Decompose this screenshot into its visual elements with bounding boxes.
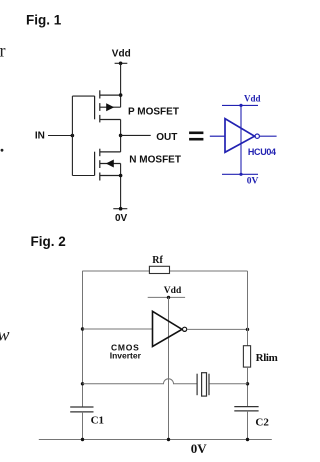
wire right vertical top (feedback to output) [247, 271, 249, 346]
svg-text:Fig. 1: Fig. 1 [26, 13, 62, 28]
junction dot input net / crystal branch [81, 382, 84, 385]
wire Rlim to crystal/C2 node [247, 367, 249, 407]
svg-text:OUT: OUT [156, 132, 177, 143]
wire gate bus (vertical with stubs to both gates) [72, 96, 94, 175]
junction dot crystal / C2 node [246, 382, 249, 385]
ground terminal 0V (Fig.1) [113, 208, 127, 210]
transistor Q1 P MOSFET symbol [95, 90, 121, 122]
junction dot on gate bus [71, 134, 75, 138]
transistor Q2 N MOSFET symbol [95, 149, 121, 181]
junction dot inverter ground / 0V rail [167, 438, 170, 441]
svg-text:r: r [0, 41, 6, 61]
junction dot C1 / 0V rail [81, 438, 84, 441]
wire N source/substrate to 0V [120, 164, 122, 209]
wire Vdd through inverter down to 0V rail [168, 297, 170, 439]
wire inverter output (blue) [260, 135, 277, 137]
wire C1 to 0V rail [82, 412, 84, 440]
inverter triangle U1 [225, 119, 255, 153]
capacitor C2 [234, 407, 258, 411]
junction dot at N source node [119, 174, 123, 178]
wire P drain to OUT node to N drain [120, 120, 122, 152]
inverter U2 output bubble [183, 327, 187, 331]
wire top feedback (left of Rf) [82, 270, 149, 272]
P MOSFET substrate arrow (points right) [106, 103, 114, 111]
junction dot Vdd bar [167, 296, 170, 299]
capacitor C1 [70, 407, 93, 412]
blue 0V junction dot [239, 173, 242, 176]
svg-text:Rlim: Rlim [256, 352, 278, 364]
N MOSFET substrate arrow (points left) [106, 160, 114, 168]
wire IN to gate bus [48, 135, 72, 137]
inverter output bubble [255, 134, 259, 138]
inverter triangle U2 CMOS inverter [153, 311, 183, 346]
wire inverter output to Rlim branch [187, 328, 248, 330]
svg-text:Rf: Rf [152, 255, 163, 266]
crystal X1 [197, 373, 209, 396]
blue Vdd rail bar [222, 104, 258, 106]
svg-text:Inverter: Inverter [110, 350, 142, 360]
svg-text:Fig. 2: Fig. 2 [31, 234, 66, 249]
svg-text:HCU04: HCU04 [248, 147, 276, 157]
resistor Rf [149, 266, 169, 273]
power terminal Vdd (Fig.1) [115, 62, 128, 64]
wire 0V bottom rail [39, 439, 272, 441]
junction dot output / right vertical [246, 328, 249, 331]
wire left vertical (input net) [82, 271, 84, 407]
node OUT junction dot [119, 134, 123, 138]
cut-off margin text fragment "." [1, 149, 4, 152]
svg-text:0V: 0V [115, 213, 128, 224]
svg-text:Vdd: Vdd [244, 93, 261, 103]
svg-text:Vdd: Vdd [164, 286, 182, 296]
svg-text:IN: IN [35, 131, 45, 142]
wire top feedback (right of Rf) [170, 270, 248, 272]
svg-text:Vdd: Vdd [112, 48, 131, 59]
wire crystal right lead [210, 383, 248, 385]
svg-text:0V: 0V [191, 441, 208, 456]
svg-text:0V: 0V [247, 177, 259, 187]
Vdd terminal bar (Fig.2) [148, 296, 185, 298]
junction dot at Vdd/source node [119, 93, 123, 97]
resistor Rlim [243, 346, 250, 367]
wire inverter input (blue) [210, 135, 225, 137]
svg-text:P MOSFET: P MOSFET [128, 107, 179, 118]
wire inverter input (Fig.2) [83, 328, 153, 330]
equivalence symbol = [189, 132, 203, 141]
svg-text:C2: C2 [255, 417, 269, 429]
svg-text:w: w [0, 325, 10, 345]
junction dot C2 / 0V rail [246, 438, 249, 441]
junction dot input net / inverter input [81, 327, 84, 330]
svg-text:N MOSFET: N MOSFET [129, 155, 181, 166]
wire C2 to 0V rail [247, 411, 249, 440]
wire crystal left lead with hop over Vdd line [83, 379, 197, 384]
wire OUT [121, 134, 151, 136]
wire Vdd to P MOSFET source/substrate [120, 63, 122, 107]
blue Vdd junction dot [239, 104, 242, 107]
svg-text:C1: C1 [91, 414, 104, 426]
wire Vdd to 0V through inverter (blue) [240, 105, 242, 174]
blue 0V rail bar [222, 173, 258, 175]
